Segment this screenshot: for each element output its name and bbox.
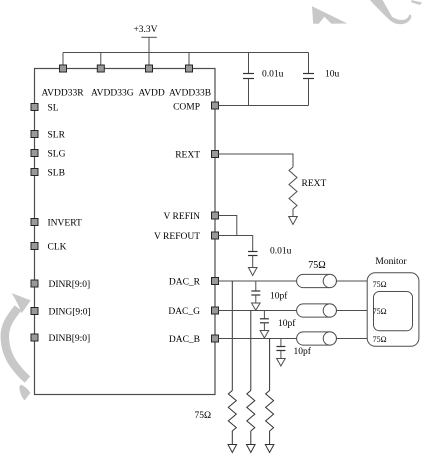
- capacitor C6 stub bottom: [280, 351, 282, 359]
- power +3.3V bar symbol: [141, 36, 157, 38]
- capacitor C2 plates: [303, 73, 314, 75]
- svg-text:10pf: 10pf: [278, 318, 296, 329]
- pin DAC_B: [212, 335, 219, 342]
- watermark letter fragment (top-right sliver): [411, 0, 422, 5]
- ground R1: [228, 445, 237, 453]
- pin AVDD: [146, 65, 153, 72]
- pin INVERT: [31, 219, 38, 226]
- svg-text:REXT: REXT: [302, 179, 327, 189]
- pin DINR[9:0]: [31, 280, 38, 287]
- pin CLK: [31, 243, 38, 250]
- ground R2: [247, 445, 256, 453]
- ground C6: [277, 359, 286, 367]
- svg-text:AVDD: AVDD: [139, 89, 165, 99]
- svg-text:10u: 10u: [325, 70, 340, 80]
- svg-text:DAC_G: DAC_G: [168, 307, 200, 317]
- pin REXT: [212, 151, 219, 158]
- svg-text:COMP: COMP: [173, 103, 200, 113]
- svg-text:0.01u: 0.01u: [262, 70, 284, 80]
- capacitor C2 stub bottom: [308, 79, 310, 106]
- svg-text:REXT: REXT: [175, 151, 200, 161]
- resistor REXT: [289, 167, 297, 209]
- pin VREFIN: [212, 212, 219, 219]
- wire below R1: [231, 431, 233, 445]
- monitor inner screen: [374, 292, 413, 331]
- wire COMP net: [219, 105, 309, 107]
- svg-text:10pf: 10pf: [270, 290, 288, 301]
- wire below R3: [269, 431, 271, 445]
- svg-text:SLB: SLB: [48, 169, 65, 179]
- wire DAC_B net: [219, 338, 297, 340]
- watermark letter P fragment (bottom-left): [5, 293, 31, 400]
- pin SLG: [31, 150, 38, 157]
- pin AVDD33G: [97, 65, 104, 72]
- svg-text:AVDD33G: AVDD33G: [91, 89, 134, 99]
- wire stub rail to AVDD33R pin: [62, 53, 64, 66]
- ground C5: [260, 331, 269, 339]
- wire below REXT: [292, 209, 294, 217]
- capacitor C2 10u stub top: [308, 53, 310, 74]
- capacitor C1 stub bottom: [248, 79, 250, 106]
- svg-text:DINB[9:0]: DINB[9:0]: [49, 334, 91, 344]
- pin DINB[9:0]: [31, 334, 38, 341]
- ground C3: [248, 268, 257, 276]
- ground REXT: [289, 217, 298, 225]
- svg-text:SLG: SLG: [48, 150, 66, 160]
- svg-text:V REFOUT: V REFOUT: [154, 232, 200, 242]
- capacitor C3 0.01u plates: [248, 251, 258, 253]
- watermark letter fragment (top-right 2): [370, 0, 412, 24]
- svg-text:75Ω: 75Ω: [373, 280, 387, 289]
- svg-text:AVDD33B: AVDD33B: [169, 89, 211, 99]
- wire DAC_G net: [219, 310, 297, 312]
- watermark letter fragment (top-right 1): [312, 6, 348, 24]
- wire stub rail to AVDD33G pin: [100, 53, 102, 66]
- svg-text:DINR[9:0]: DINR[9:0]: [49, 280, 91, 290]
- wire DAC_B drop to R3: [269, 339, 271, 391]
- pin VREFOUT: [212, 232, 219, 239]
- connector coax G: [297, 304, 337, 317]
- svg-text:AVDD33R: AVDD33R: [42, 89, 85, 99]
- pin SLB: [31, 169, 38, 176]
- capacitor C5 10pf stub: [263, 311, 265, 319]
- capacitor C1 0.01u stub top: [248, 53, 250, 74]
- wire coax B to monitor: [336, 338, 367, 340]
- pin SLR: [31, 131, 38, 138]
- capacitor C6 10pf stub: [280, 339, 282, 347]
- resistor R1 75ohm: [228, 391, 236, 432]
- capacitor C4 plates: [251, 290, 260, 292]
- capacitor C6 plates: [276, 346, 285, 348]
- svg-text:DING[9:0]: DING[9:0]: [49, 308, 91, 318]
- resistor R2 75ohm: [247, 391, 255, 432]
- svg-text:INVERT: INVERT: [48, 219, 82, 229]
- svg-text:75Ω: 75Ω: [373, 307, 387, 316]
- wire coax R to monitor: [336, 280, 367, 282]
- ground R3: [265, 445, 274, 453]
- connector coax R: [297, 274, 337, 287]
- wire power rail: [63, 52, 309, 54]
- svg-text:75Ω: 75Ω: [308, 260, 325, 271]
- pin AVDD33R: [60, 65, 67, 72]
- svg-text:SLR: SLR: [48, 131, 66, 141]
- capacitor C5 plates: [260, 318, 269, 320]
- capacitor C4 10pf stub: [255, 281, 257, 291]
- wire DAC_R net: [219, 280, 297, 282]
- svg-text:CLK: CLK: [48, 243, 67, 253]
- pin DAC_R: [212, 278, 219, 285]
- pin COMP: [212, 102, 219, 109]
- wire DAC_G drop to R2: [250, 311, 252, 391]
- capacitor C5 stub bottom: [263, 323, 265, 331]
- svg-text:DAC_B: DAC_B: [169, 335, 200, 345]
- capacitor C4 stub bottom: [255, 295, 257, 303]
- wire VREFIN net: [219, 216, 237, 236]
- svg-text:10pf: 10pf: [294, 346, 312, 357]
- wire REXT net: [219, 154, 294, 167]
- wire DAC_R drop to R1: [231, 281, 233, 391]
- wire stub rail to AVDD33B pin: [188, 53, 190, 66]
- wire VREFOUT net: [219, 236, 253, 252]
- pin DAC_G: [212, 307, 219, 314]
- connector coax B: [297, 332, 337, 345]
- wire coax G to monitor: [336, 310, 367, 312]
- capacitor C3 stub bottom: [252, 256, 254, 268]
- svg-text:75Ω: 75Ω: [373, 335, 387, 344]
- wire +3.3V vertical to AVDD pin: [148, 37, 150, 65]
- capacitor C1 plates: [243, 73, 254, 75]
- svg-text:V REFIN: V REFIN: [163, 212, 200, 222]
- pin DING[9:0]: [31, 308, 38, 315]
- svg-text:Monitor: Monitor: [375, 257, 407, 267]
- pin AVDD33B: [186, 65, 193, 72]
- svg-text:+3.3V: +3.3V: [133, 25, 157, 35]
- wire below R2: [250, 431, 252, 445]
- pin SL: [31, 104, 38, 111]
- resistor R3 75ohm: [266, 391, 274, 432]
- svg-text:DAC_R: DAC_R: [169, 278, 201, 288]
- IC U1 body: [35, 69, 216, 395]
- svg-text:SL: SL: [48, 104, 59, 114]
- monitor box: [367, 273, 419, 347]
- svg-text:75Ω: 75Ω: [195, 411, 212, 421]
- ground C4: [252, 303, 261, 310]
- svg-text:0.01u: 0.01u: [270, 247, 292, 257]
